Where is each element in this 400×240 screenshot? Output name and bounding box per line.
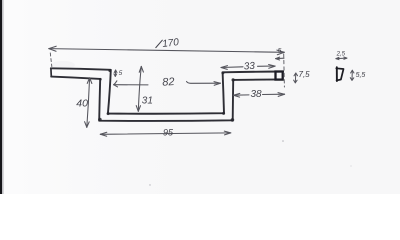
svg-text:5: 5 bbox=[119, 70, 123, 77]
svg-text:33: 33 bbox=[243, 61, 255, 73]
svg-text:40: 40 bbox=[76, 97, 88, 109]
svg-text:2,5: 2,5 bbox=[336, 52, 346, 58]
svg-text:82: 82 bbox=[162, 76, 175, 89]
svg-text:5,5: 5,5 bbox=[356, 72, 366, 79]
svg-text:7,5: 7,5 bbox=[299, 70, 311, 79]
svg-text:5: 5 bbox=[278, 47, 282, 54]
svg-text:170: 170 bbox=[162, 37, 180, 50]
svg-text:38: 38 bbox=[251, 89, 263, 100]
svg-text:31: 31 bbox=[142, 95, 153, 106]
svg-text:95: 95 bbox=[163, 128, 174, 138]
